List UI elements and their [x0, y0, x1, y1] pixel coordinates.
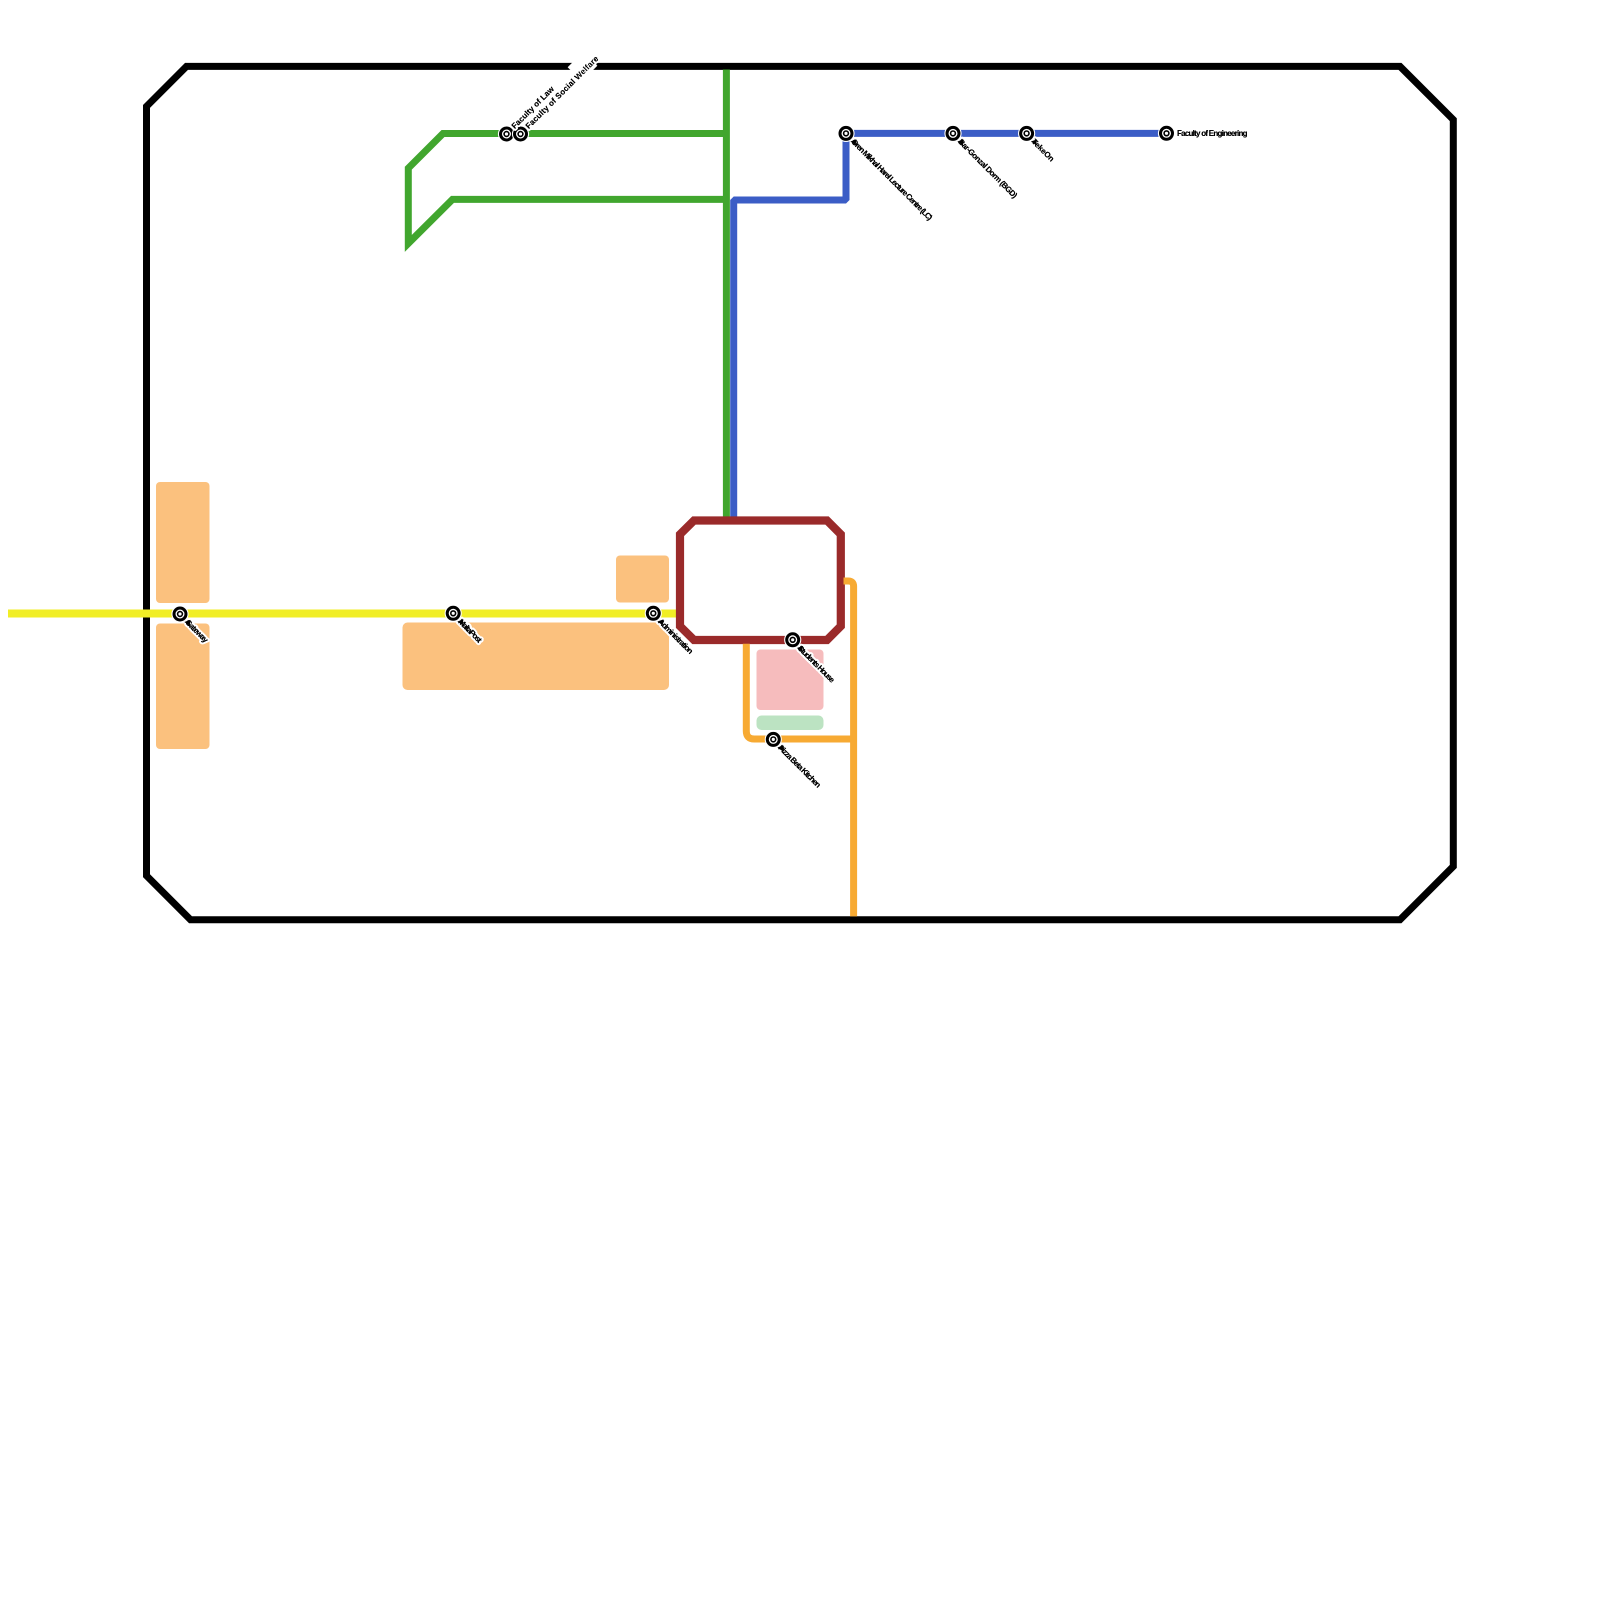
orange line U branch — [746, 644, 857, 739]
station MaltaPost — [445, 605, 462, 622]
station Faculty of Engineering — [1158, 125, 1175, 142]
blue line horizontal top — [846, 130, 1167, 137]
station Faculty of Law — [498, 125, 515, 142]
building block upper-left tall — [156, 482, 210, 603]
map border octagon — [147, 66, 1454, 919]
yellow line — [8, 610, 680, 618]
station Students House — [784, 631, 801, 648]
station TekeOn — [1018, 125, 1035, 142]
label leading blobs — [850, 137, 859, 146]
station Bar-Gonzal Dorm — [944, 125, 961, 142]
building block pink (students) — [757, 650, 824, 711]
green line main vertical — [723, 70, 730, 519]
building block mint green bar — [757, 716, 824, 731]
dark red loop box — [680, 521, 841, 641]
orange line right branch — [844, 581, 854, 916]
blue line vertical path — [734, 133, 846, 518]
building block small above central — [616, 556, 669, 603]
station Pizza Beta Kitchen — [765, 731, 782, 748]
green line loop branch — [408, 134, 726, 244]
building block lower-left tall — [156, 624, 210, 750]
station Faculty of Social Welfare — [512, 125, 529, 142]
station Administration — [645, 605, 662, 622]
building block central long — [403, 623, 670, 691]
station Gateway — [171, 605, 188, 622]
border gap where Social Welfare label crosses — [568, 52, 598, 82]
svg-text:Faculty of Engineering: Faculty of Engineering — [1177, 129, 1248, 138]
station Lecture Centre — [837, 125, 854, 142]
